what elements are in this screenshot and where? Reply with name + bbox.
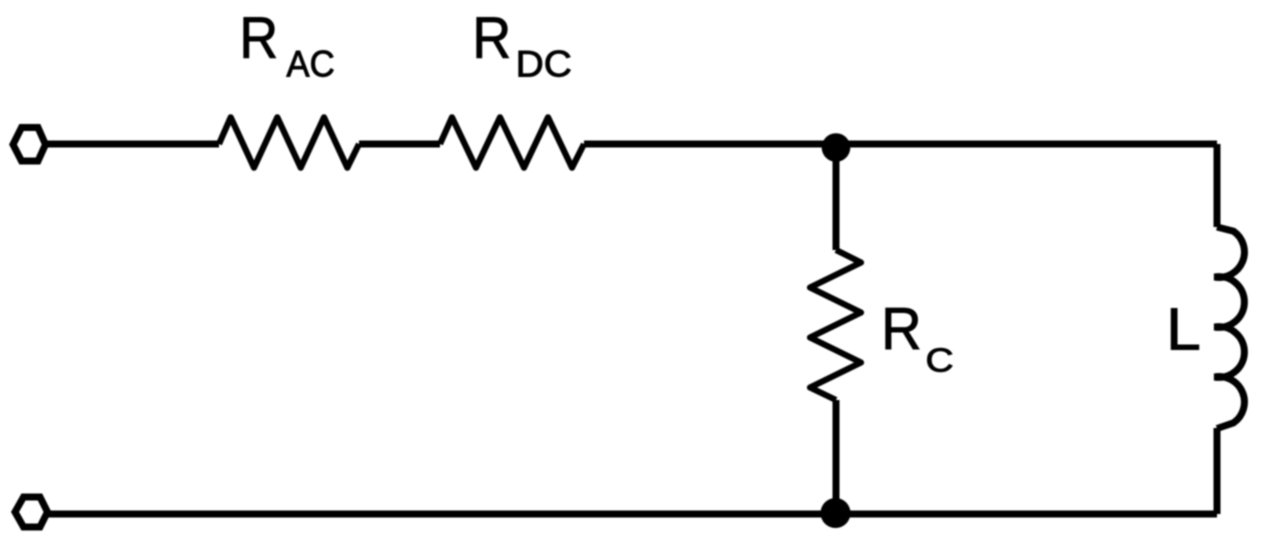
svg-text:R: R <box>239 6 278 71</box>
svg-text:C: C <box>926 342 954 380</box>
junction node top <box>822 133 851 162</box>
resistor R_AC zigzag <box>219 117 359 167</box>
svg-text:DC: DC <box>516 42 572 84</box>
wire right rail upper <box>1214 144 1221 227</box>
terminal T2 (bottom-left hexagon) <box>15 497 48 527</box>
wire bottom rail <box>48 511 1218 518</box>
svg-text:L: L <box>1166 296 1201 363</box>
junction node bottom <box>821 498 851 528</box>
wire middle branch with resistor R_C zigzag <box>833 144 840 513</box>
svg-text:R: R <box>472 6 511 71</box>
svg-text:R: R <box>881 295 922 362</box>
wire right rail lower <box>1214 428 1221 514</box>
terminal T1 (top-left hexagon) <box>13 128 46 162</box>
resistor R_DC zigzag <box>440 117 584 167</box>
resistor R_C zigzag <box>810 250 861 400</box>
inductor L <box>1215 227 1245 429</box>
wire top rail with resistor R_AC and resistor R_DC zigzags <box>46 141 1218 148</box>
svg-text:AC: AC <box>286 42 334 84</box>
